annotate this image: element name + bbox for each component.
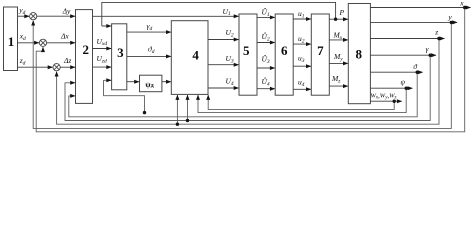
wire yd: block1 to S1 [18, 15, 30, 17]
svg-text:yd: yd [18, 5, 25, 16]
arrow into psi block [134, 80, 139, 84]
svg-text:6: 6 [281, 43, 288, 58]
svg-text:zd: zd [19, 56, 26, 67]
arrow out x [466, 6, 471, 10]
wire dX: S2 to block2 [47, 42, 75, 44]
arrow u3 into block7 [306, 64, 311, 68]
arrow My into block8 [343, 61, 348, 65]
arrow feedback into block2 lower2 [70, 94, 75, 98]
svg-text:U1: U1 [223, 7, 231, 17]
svg-text:7: 7 [317, 43, 324, 58]
svg-text:Mx: Mx [333, 31, 343, 41]
feedback drop W [208, 95, 394, 109]
arrow feedback up into S2 [41, 47, 45, 52]
feedback branch gamma to block4 input2 [187, 95, 189, 120]
arrow into S1 [24, 14, 29, 18]
junction dot out gamma [429, 54, 432, 57]
arrow feedback up into block4 in2 [186, 95, 190, 100]
svg-text:Û3: Û3 [262, 54, 270, 65]
wire dZ: S3 to block2 [60, 66, 75, 68]
svg-text:Uzd: Uzd [97, 54, 108, 64]
wire u3: block6 to block7 [293, 65, 311, 67]
svg-text:My: My [333, 52, 343, 62]
wire zd: block1 to S3 [18, 66, 53, 68]
wire out gamma [370, 54, 436, 56]
junction dot out y [450, 21, 453, 24]
wire Uh2: block5 to block6 [257, 42, 275, 44]
block 2 [76, 10, 93, 104]
arrow feedback into block3 lower [106, 78, 111, 82]
arrow U4 into block5 [234, 86, 239, 90]
summing junction S3 [53, 64, 60, 71]
wire dY: S1 to block2 [37, 15, 75, 17]
wire theta_d: block3 to block4 [127, 55, 171, 57]
block 4 [171, 21, 208, 95]
svg-text:Û1: Û1 [262, 7, 270, 18]
wire out z [370, 38, 444, 40]
arrow u1 into block7 [306, 17, 311, 21]
feedback branch psi to block3 lower input [104, 80, 145, 112]
junction dot P feedback [334, 18, 337, 21]
wire P feedback top: from P line dot up over top to block3 [102, 2, 336, 26]
wire U2: block4 to block5 [208, 39, 238, 41]
svg-text:ψд: ψд [145, 80, 153, 89]
junction dot out z [437, 37, 440, 40]
arrow Uh1 into block6 [270, 15, 275, 19]
svg-text:5: 5 [243, 43, 250, 58]
feedback drop y [33, 21, 451, 129]
feedback drop x [36, 8, 465, 132]
arrow Mx into block8 [343, 38, 348, 42]
feedback drop psi [198, 88, 406, 112]
svg-text:Wx,Wy,Wz: Wx,Wy,Wz [371, 92, 397, 100]
svg-text:4: 4 [192, 48, 199, 63]
arrow feedback into block2 lower1 [70, 81, 75, 85]
arrow u2 into block7 [306, 42, 311, 46]
junction dot rail z branch [176, 123, 179, 126]
block 1 [4, 7, 18, 71]
svg-text:Δz: Δz [63, 56, 71, 65]
svg-text:x: x [459, 0, 464, 8]
arrow out psi [408, 86, 413, 90]
svg-text:u4: u4 [298, 78, 305, 88]
feedback branch z to block4 input1 [176, 95, 178, 124]
junction dot out W [393, 100, 396, 103]
arrow U1 into block5 [234, 14, 239, 18]
wire out theta [370, 71, 422, 73]
svg-text:8: 8 [355, 46, 362, 61]
svg-text:U3: U3 [226, 54, 234, 64]
junction dot rail gamma branch [186, 119, 189, 122]
wire U3: block4 to block5 [208, 64, 238, 66]
arrow Uh2 into block6 [270, 41, 275, 45]
svg-text:Û4: Û4 [262, 76, 270, 87]
wire Mx: block7 to block8 [329, 39, 347, 41]
arrow feedback up into S1 [31, 20, 35, 25]
feedback drop z [57, 39, 439, 125]
arrow u4 into block7 [306, 87, 311, 91]
arrow Mz into block8 [343, 84, 348, 88]
wire u1: block6 to block7 [293, 18, 311, 20]
wire Uh4: block5 to block6 [257, 88, 275, 90]
svg-text:Δx: Δx [60, 31, 69, 40]
arrow Uxd into block3 [106, 47, 111, 51]
svg-text:Û2: Û2 [262, 31, 270, 42]
arrow dZ into block2 [70, 65, 75, 69]
junction dot out x [463, 6, 466, 9]
svg-text:3: 3 [117, 45, 124, 60]
svg-text:xd: xd [19, 31, 26, 42]
svg-text:ψ: ψ [400, 78, 405, 87]
svg-text:y: y [447, 12, 452, 21]
svg-text:z: z [434, 28, 438, 37]
junction dot rail psi branch [143, 111, 146, 114]
arrow into S3 [48, 65, 53, 69]
svg-text:ϑd: ϑd [148, 45, 155, 55]
wire out psi [370, 87, 412, 89]
wire psi_d out: psi block to block4 [162, 81, 171, 83]
svg-text:ϑ: ϑ [413, 62, 418, 71]
svg-text:1: 1 [8, 34, 15, 49]
svg-text:γ: γ [426, 45, 430, 54]
wire Uxd: block2 to block3 [93, 48, 112, 50]
block 5 [239, 14, 257, 95]
arrow P-top into block3 [106, 24, 111, 28]
wire U1: block2 to block5 [93, 15, 239, 17]
summing junction S1 [30, 13, 37, 20]
svg-text:2: 2 [82, 42, 89, 57]
junction dot out psi [405, 87, 408, 90]
arrow out theta [418, 70, 423, 74]
svg-text:u3: u3 [298, 54, 305, 64]
arrow into S2 [34, 41, 39, 45]
arrow Uzd into block3 [106, 65, 111, 69]
arrow U3 into block5 [234, 63, 239, 67]
svg-text:u1: u1 [298, 9, 305, 19]
arrow psi_d into block4 [166, 80, 171, 84]
junction dot out theta [416, 71, 419, 74]
arrow dX into block2 [70, 41, 75, 45]
block psi_d [140, 75, 162, 92]
wire out x [370, 7, 470, 9]
arrow feedback up into block4 in3 [196, 95, 200, 100]
wire Uh3: block5 to block6 [257, 67, 275, 69]
wire My: block7 to block8 [329, 62, 347, 64]
arrow dY into block2 [70, 14, 75, 18]
wire out y [370, 21, 457, 23]
block 6 [275, 14, 293, 95]
wire Uzd: block2 to block3 [93, 66, 112, 68]
feedback drop theta [69, 72, 417, 117]
block 7 [311, 14, 329, 95]
svg-text:Uxd: Uxd [97, 37, 108, 47]
wire out W [370, 100, 401, 102]
wire U4: block4 to block5 [208, 87, 238, 89]
wire u2: block6 to block7 [293, 43, 311, 45]
wire u4: block6 to block7 [293, 88, 311, 90]
svg-text:P: P [339, 8, 345, 17]
arrow feedback up into block4 in1 [175, 95, 179, 100]
arrow feedback up into block4 in4 [206, 95, 210, 100]
wire psi_d in: block3 to psi block [127, 81, 139, 83]
svg-text:Δy: Δy [62, 7, 71, 16]
wire xd: block1 to S2 [18, 42, 39, 44]
arrow theta_d into block4 [166, 54, 171, 58]
arrow Uh3 into block6 [270, 66, 275, 70]
arrow P into block8 [343, 17, 348, 21]
svg-text:U4: U4 [226, 77, 234, 87]
svg-text:U2: U2 [226, 28, 234, 38]
arrow out gamma [431, 53, 436, 57]
block 8 [348, 4, 370, 104]
arrow U2 into block5 [234, 38, 239, 42]
svg-text:u2: u2 [298, 34, 305, 44]
arrow Uh4 into block6 [270, 87, 275, 91]
svg-text:Mz: Mz [331, 74, 341, 84]
arrow out y [452, 20, 457, 24]
svg-text:γd: γd [147, 22, 153, 32]
block 3 [112, 24, 127, 90]
wire P: block7 to block8 [329, 18, 347, 20]
feedback drop gamma [65, 55, 430, 120]
arrow feedback up into S3 [55, 71, 59, 76]
wire Mz: block7 to block8 [329, 85, 347, 87]
arrow gamma_d into block4 [166, 30, 171, 34]
arrow out z [440, 37, 445, 41]
summing junction S2 [39, 39, 46, 46]
wire gamma_d: block3 to block4 [127, 31, 171, 33]
wire Uh1: block5 to block6 [257, 16, 275, 18]
arrow out W [397, 99, 402, 103]
